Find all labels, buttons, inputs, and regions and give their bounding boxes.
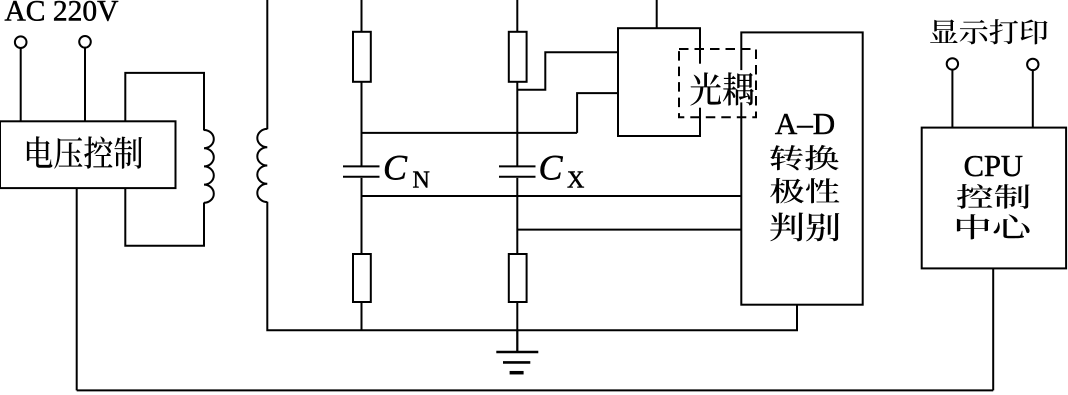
label 判别 (770, 213, 839, 242)
wire node line A (CN-CX link) (362, 132, 578, 134)
terminal T2 (79, 36, 91, 48)
wire T1 to voltage-control box (20, 48, 22, 122)
ground (496, 352, 538, 373)
resistor R3 (353, 254, 371, 302)
wire T2 to voltage-control box (84, 48, 86, 122)
svg-text:CPU: CPU (964, 149, 1023, 183)
wire ground stem (516, 330, 518, 352)
wire CPU box bottom to ground bus (992, 268, 994, 390)
wire R4 to ground stem (516, 302, 518, 352)
wire relay box top feeder (656, 0, 658, 28)
svg-text:X: X (567, 167, 584, 193)
wire T4 to CPU box (1032, 70, 1034, 128)
label 控制 (957, 184, 1030, 209)
wire ground bus (bottom) (77, 389, 994, 391)
A-D converter box U2 (741, 32, 862, 304)
wire CX-resistor junction to relay box input 1 (517, 52, 618, 90)
svg-text:C: C (539, 148, 564, 188)
transformer primary coil L1a (204, 130, 214, 203)
terminal T4 (1027, 59, 1038, 70)
relay box U1 (618, 28, 700, 136)
wire voltage-control box bottom to ground bus (76, 188, 78, 390)
capacitor CX plate top (499, 165, 536, 167)
CPU box U3 (922, 128, 1066, 269)
resistor R1 (353, 32, 371, 82)
voltage control box 电压控制 (0, 121, 176, 188)
transformer secondary coil L1b (257, 129, 267, 202)
svg-text:N: N (413, 167, 430, 193)
wire node line B (below capacitors to A-D) (362, 195, 742, 197)
label 电压控制 (27, 136, 142, 169)
wire primary loop top: box top to coil top (125, 73, 204, 131)
wire R2 to capacitor CX (516, 82, 518, 166)
wire secondary bottom bus to A-D box (267, 202, 797, 330)
label 转换 (770, 145, 838, 170)
label 显示打印 (930, 19, 1048, 44)
wire line A to relay box input 2 (577, 93, 618, 133)
capacitor CN plate top (343, 165, 380, 167)
wire secondary top feeder (266, 0, 268, 129)
label 极性 (770, 178, 839, 203)
resistor R2 (509, 32, 527, 82)
capacitor CN plate bottom (343, 176, 380, 178)
wire R3 to bottom bus (361, 302, 363, 330)
wire node line C (CX bottom to A-D) (517, 229, 741, 231)
svg-text:AC 220V: AC 220V (5, 0, 119, 28)
wire R1 to capacitor CN (361, 82, 363, 166)
optocoupler label backdrop (687, 64, 722, 108)
wire CN branch top feeder (361, 0, 363, 32)
wire primary loop bottom: coil bottom to box bottom (125, 188, 204, 246)
wire CN to R3 (361, 178, 363, 254)
label 中心 (957, 214, 1030, 239)
label 光耦 (690, 72, 754, 105)
svg-text:A–D: A–D (775, 106, 835, 141)
wire CX to R4 (516, 178, 518, 254)
wire CX branch top feeder (516, 0, 518, 32)
wire T3 to CPU box (951, 70, 953, 128)
capacitor CX plate bottom (499, 176, 536, 178)
terminal T3 (947, 58, 958, 69)
terminal T1 (15, 36, 27, 48)
svg-text:C: C (383, 148, 408, 188)
optocoupler dashed box (679, 49, 756, 117)
resistor R4 (509, 254, 527, 302)
